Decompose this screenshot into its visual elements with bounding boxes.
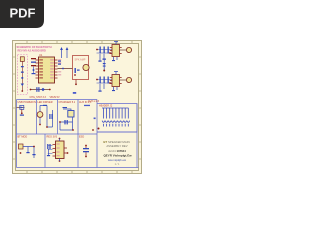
- svg-text:AUX-L 2,3: AUX-L 2,3: [88, 100, 100, 103]
- svg-text:ESD: ESD: [79, 135, 84, 138]
- svg-text:A2-04 137644: A2-04 137644: [108, 149, 126, 153]
- svg-text:BT MOD: BT MOD: [18, 135, 28, 138]
- svg-text:ASSEMBLY REV: ASSEMBLY REV: [106, 144, 127, 148]
- svg-text:SCHEMATIC OF BLUETOOTH: SCHEMATIC OF BLUETOOTH: [17, 46, 52, 49]
- svg-text:U1: U1: [39, 53, 43, 57]
- svg-text:LED DRIVER: LED DRIVER: [38, 101, 53, 104]
- svg-text:QEYR Vishnplgt.Ew: QEYR Vishnplgt.Ew: [103, 153, 132, 157]
- svg-text:HEADER J2: HEADER J2: [99, 105, 113, 108]
- svg-text:PDF: PDF: [10, 6, 36, 21]
- svg-text:SPK AMP: SPK AMP: [75, 59, 86, 62]
- svg-text:REG 3V3: REG 3V3: [47, 135, 58, 138]
- svg-text:VBUS 5V: VBUS 5V: [50, 96, 61, 99]
- svg-text:ww.miqdqb.ew: ww.miqdqb.ew: [108, 158, 127, 162]
- svg-text:USB POWER IN: USB POWER IN: [18, 101, 37, 104]
- svg-text:REV MY-A2 AUDIO BRD: REV MY-A2 AUDIO BRD: [18, 49, 46, 52]
- svg-text:1 / 1: 1 / 1: [115, 163, 120, 166]
- svg-text:CHARGER 5.1: CHARGER 5.1: [59, 101, 76, 104]
- svg-text:CHG_STAT 3.3: CHG_STAT 3.3: [30, 96, 47, 99]
